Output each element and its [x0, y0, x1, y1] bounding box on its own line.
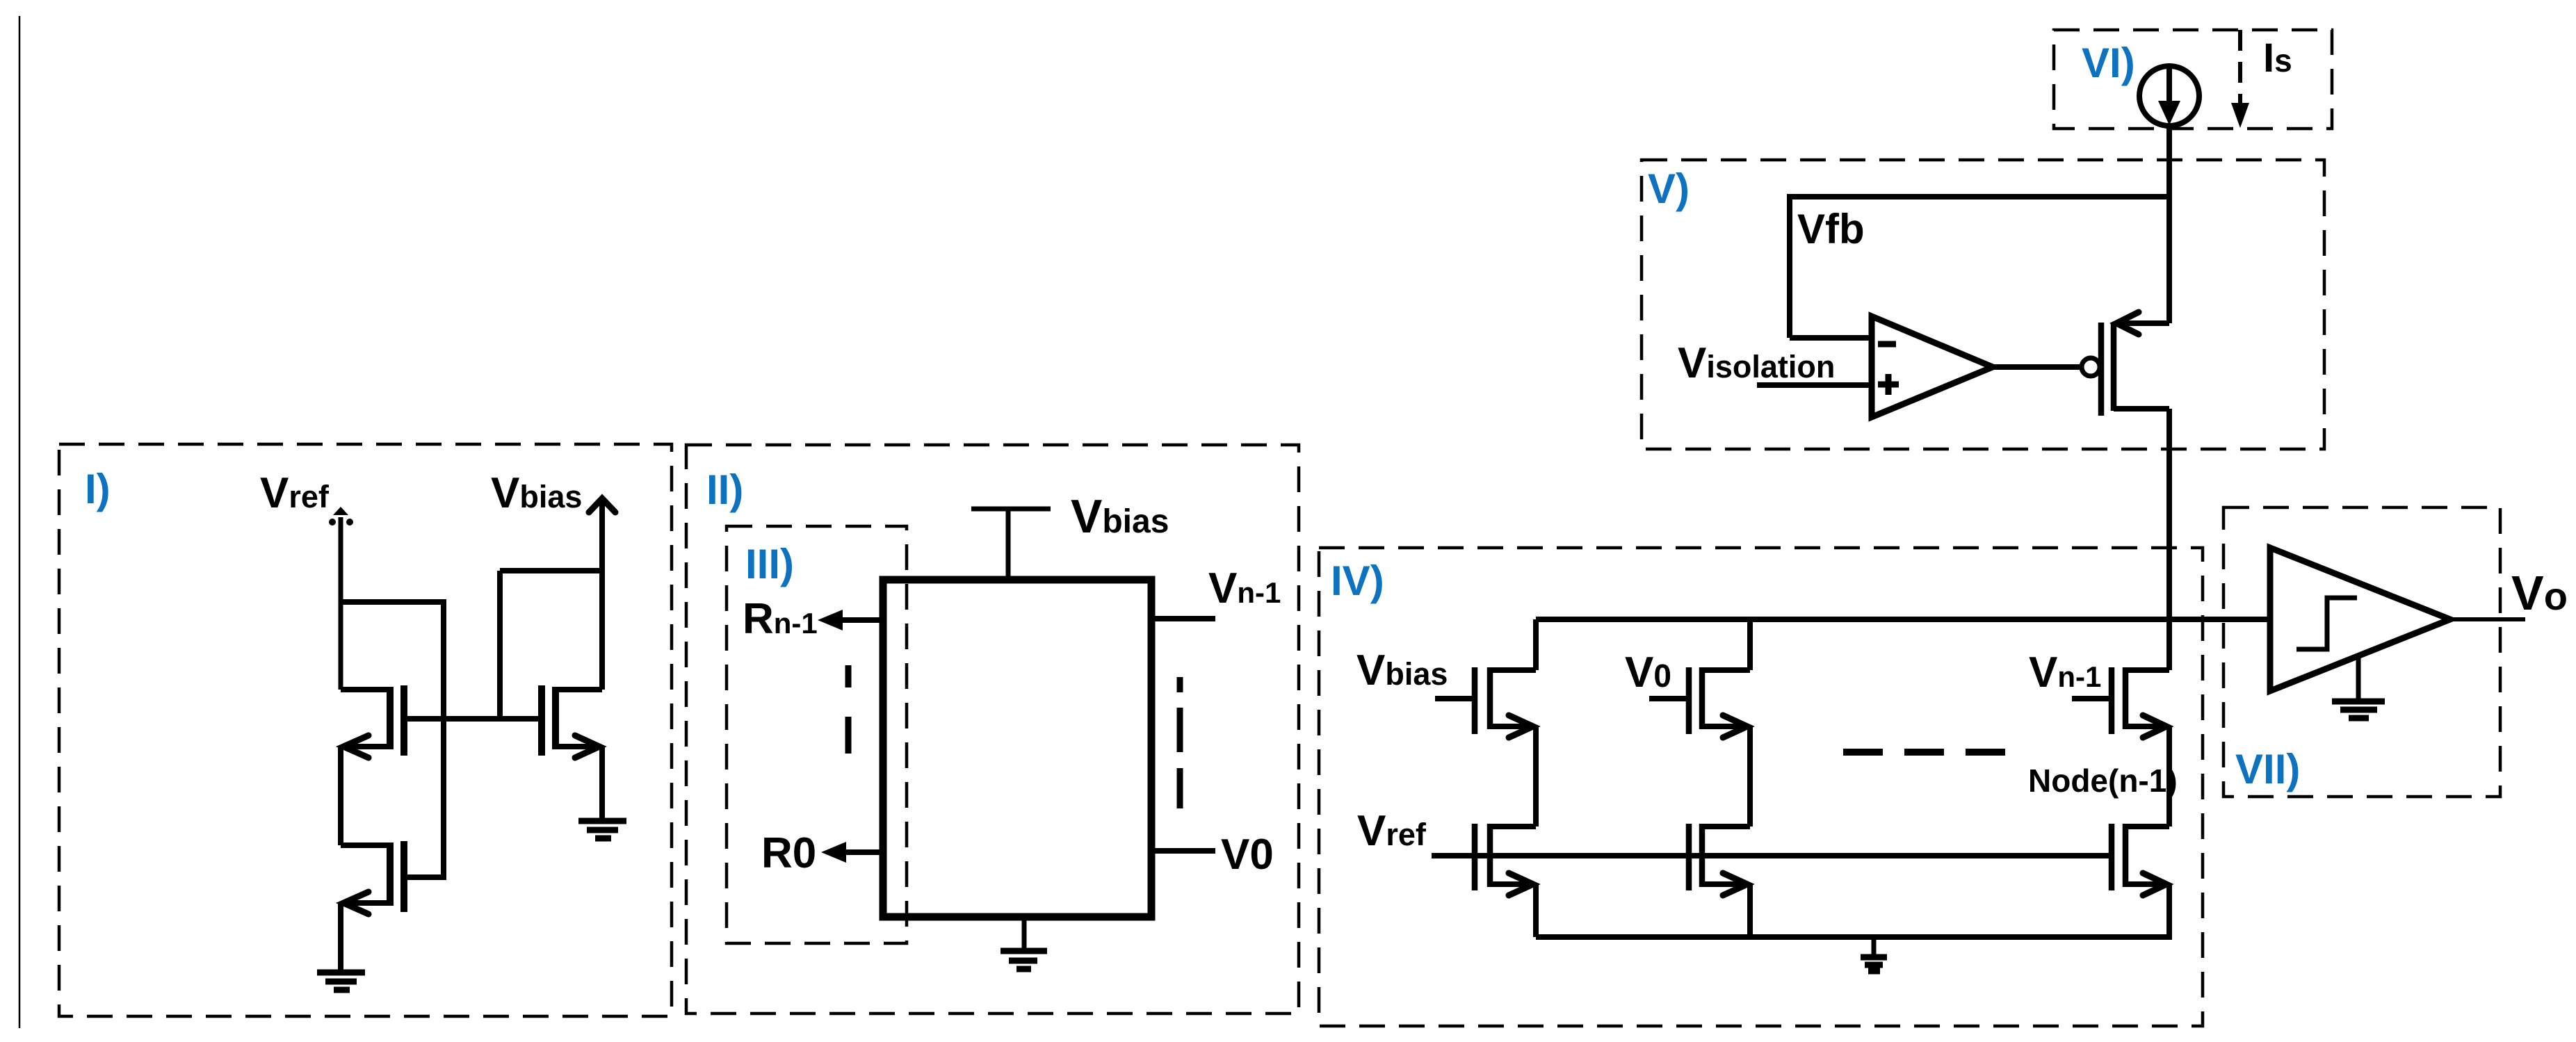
svg-text:VI): VI) [2082, 40, 2135, 86]
svg-text:R0: R0 [761, 829, 816, 877]
svg-text:Vfb: Vfb [1797, 206, 1865, 252]
svg-text:I): I) [85, 466, 111, 512]
svg-text:Node(n-1): Node(n-1) [2028, 763, 2178, 799]
svg-text:Vo: Vo [2511, 566, 2568, 620]
svg-text:V0: V0 [1221, 831, 1274, 879]
svg-text:IV): IV) [1331, 557, 1384, 604]
svg-text:III): III) [745, 541, 794, 587]
svg-text:V): V) [1648, 165, 1690, 212]
svg-text:II): II) [706, 466, 743, 513]
svg-text:VII): VII) [2235, 746, 2300, 792]
svg-text:Is: Is [2263, 35, 2292, 81]
